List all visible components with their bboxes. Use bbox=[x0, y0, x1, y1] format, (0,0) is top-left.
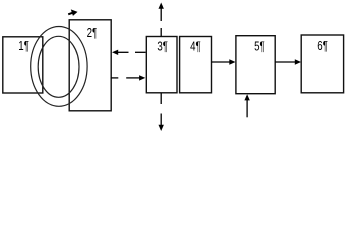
dashed down arrow below box 3 bbox=[160, 93, 162, 126]
inner ellipse bbox=[38, 36, 79, 97]
svg-text:3¶: 3¶ bbox=[157, 39, 168, 54]
svg-text:6¶: 6¶ bbox=[317, 38, 328, 53]
dashed up arrow above box 3 bbox=[160, 8, 162, 37]
solid arrow box 5 to box 6 bbox=[275, 61, 296, 63]
box 6 bbox=[301, 35, 343, 93]
box 1 bbox=[3, 37, 43, 93]
svg-text:2¶: 2¶ bbox=[87, 25, 98, 40]
svg-text:5¶: 5¶ bbox=[254, 38, 265, 53]
svg-text:4¶: 4¶ bbox=[190, 39, 201, 54]
dashed right arrow from box 2 to box 3 bbox=[111, 77, 140, 79]
box 3 bbox=[146, 37, 177, 93]
outer ellipse bbox=[31, 27, 87, 107]
box 4 bbox=[180, 37, 212, 93]
small arrow glyph above box 2 bbox=[68, 9, 77, 16]
box 5 bbox=[236, 36, 275, 94]
dashed left arrow from box 3 to box 2 bbox=[117, 51, 146, 53]
solid arrow box 4 to box 5 bbox=[212, 61, 231, 63]
svg-text:1¶: 1¶ bbox=[18, 38, 29, 53]
solid up arrow into box 5 bbox=[246, 99, 248, 117]
box 2 bbox=[69, 20, 111, 111]
